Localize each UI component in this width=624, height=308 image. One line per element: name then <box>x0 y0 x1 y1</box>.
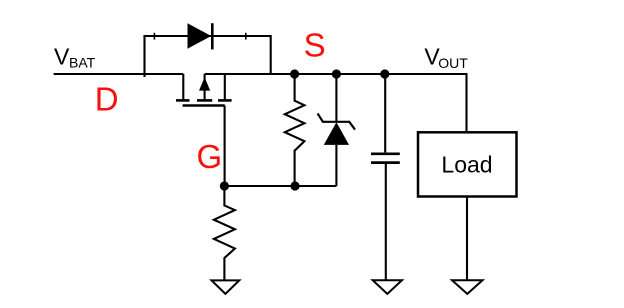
node junction dot capacitor tap <box>380 69 389 78</box>
wire gate lead down to gate node <box>224 106 226 187</box>
ground symbol under R2 <box>212 280 240 293</box>
svg-text:S: S <box>304 27 326 64</box>
resistor R2 gate pulldown (zigzag) <box>214 186 235 280</box>
node junction dot zener tap <box>332 69 341 78</box>
wire tick diode anode lead end <box>153 33 155 40</box>
ground symbol under C1 <box>373 280 402 294</box>
capacitor C1 output <box>371 74 400 280</box>
transistor Q1 source stub <box>224 74 226 99</box>
svg-text:Load: Load <box>441 152 492 178</box>
wire gate node bottom rail <box>224 185 336 187</box>
ground symbol under load <box>452 280 483 294</box>
label V_OUT <box>424 44 468 71</box>
body diode D1 (anode left, cathode bar right) <box>188 23 213 49</box>
transistor Q1 channel contact bars <box>176 99 232 102</box>
label V_BAT <box>54 44 96 71</box>
wire V_BAT rail left segment to drain <box>54 73 184 75</box>
node G junction dot <box>220 181 229 190</box>
svg-text:OUT: OUT <box>438 55 468 71</box>
wire tick diode cathode lead end <box>245 33 247 40</box>
wire V_OUT rail from MOSFET source to output corner <box>205 74 467 132</box>
svg-text:D: D <box>95 81 119 118</box>
wire load to ground <box>466 197 468 281</box>
transistor Q1 P-MOSFET drain stub <box>182 74 184 99</box>
svg-text:V: V <box>54 44 70 70</box>
load box U1 <box>418 132 517 196</box>
zener diode Z1 (cathode bar top, anode down) <box>318 74 355 186</box>
transistor Q1 body arrow (points up to source) <box>199 74 210 99</box>
svg-text:G: G <box>197 138 223 175</box>
wire body-diode loop (left riser, top run, right riser) <box>145 36 271 77</box>
node S junction dot (resistor tap) <box>290 69 299 78</box>
transistor Q1 gate plate <box>183 104 225 106</box>
node junction dot resistor bottom <box>290 181 299 190</box>
resistor R1 gate-source (zigzag) <box>285 74 305 186</box>
svg-text:BAT: BAT <box>69 55 96 71</box>
